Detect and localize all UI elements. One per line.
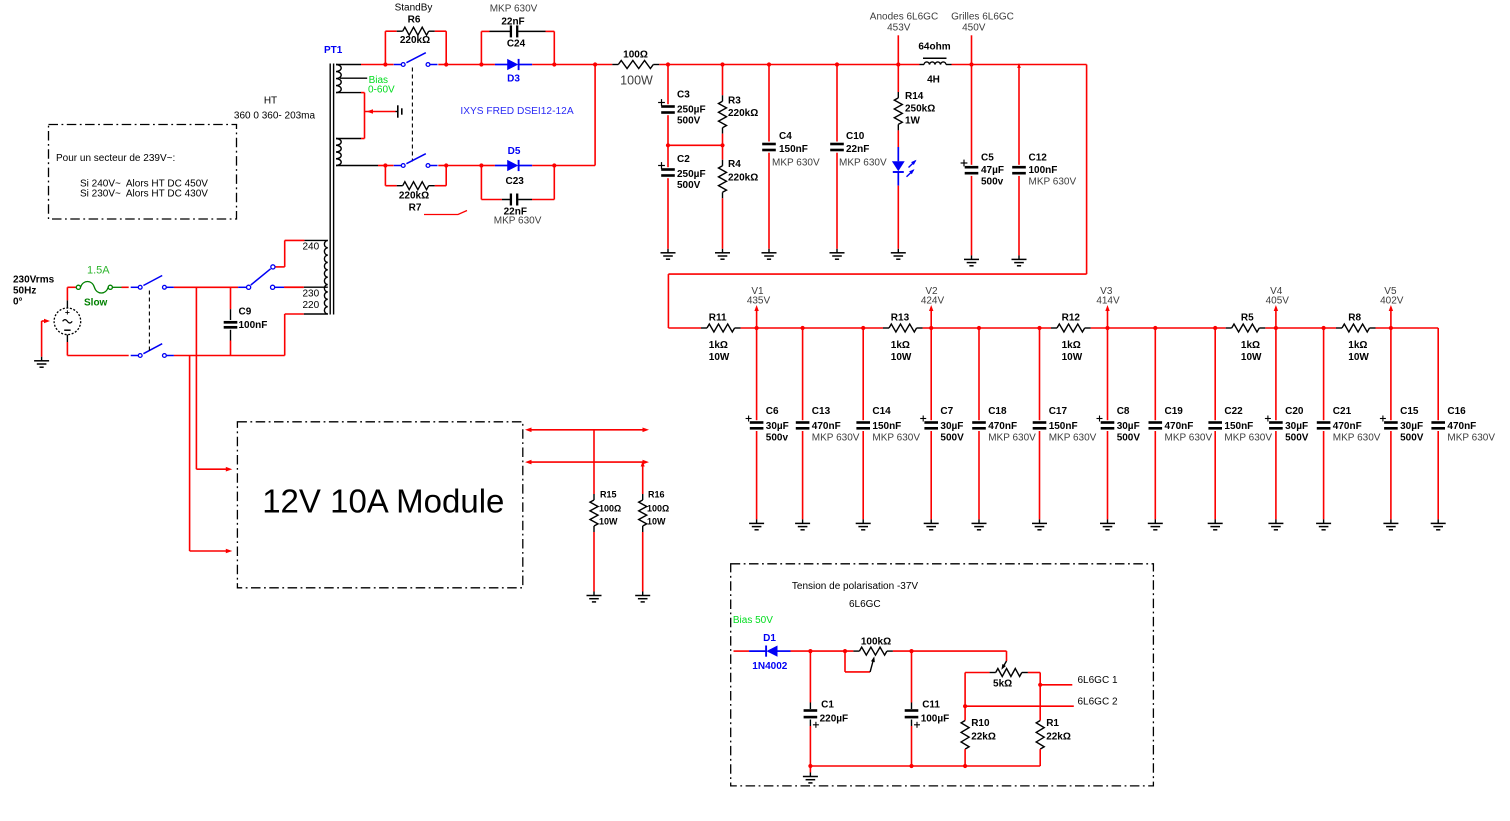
svg-text:150nF: 150nF <box>1224 421 1253 432</box>
svg-text:C4: C4 <box>779 131 792 142</box>
svg-text:C14: C14 <box>872 406 891 417</box>
svg-text:10W: 10W <box>599 517 618 527</box>
svg-text:6L6GC: 6L6GC <box>849 599 881 610</box>
svg-text:10W: 10W <box>891 352 912 363</box>
svg-text:MKP 630V: MKP 630V <box>1049 432 1097 443</box>
svg-text:Si 230V~ Alors HT DC 430V: Si 230V~ Alors HT DC 430V <box>80 189 208 200</box>
svg-text:C11: C11 <box>922 699 940 710</box>
svg-text:10W: 10W <box>709 352 730 363</box>
svg-text:100kΩ: 100kΩ <box>861 637 891 648</box>
svg-text:450V: 450V <box>962 23 986 34</box>
svg-text:1.5A: 1.5A <box>87 265 110 277</box>
svg-text:500V: 500V <box>1117 432 1141 443</box>
svg-text:MKP 630V: MKP 630V <box>1333 432 1381 443</box>
svg-text:C18: C18 <box>988 406 1007 417</box>
svg-text:PT1: PT1 <box>324 45 343 56</box>
svg-text:150nF: 150nF <box>872 421 901 432</box>
svg-text:C1: C1 <box>821 699 834 710</box>
svg-text:MKP 630V: MKP 630V <box>490 3 538 14</box>
svg-text:30µF: 30µF <box>1400 421 1423 432</box>
svg-text:C15: C15 <box>1400 406 1419 417</box>
svg-text:R15: R15 <box>600 490 617 500</box>
svg-text:500V: 500V <box>940 432 964 443</box>
svg-text:402V: 402V <box>1380 295 1404 306</box>
svg-text:10W: 10W <box>1241 352 1262 363</box>
svg-text:470nF: 470nF <box>1333 421 1362 432</box>
svg-text:C13: C13 <box>812 406 831 417</box>
svg-text:C8: C8 <box>1117 406 1130 417</box>
svg-text:R5: R5 <box>1241 312 1254 323</box>
svg-text:0-60V: 0-60V <box>368 85 395 96</box>
svg-text:220kΩ: 220kΩ <box>400 35 430 46</box>
svg-text:220µF: 220µF <box>820 713 849 724</box>
svg-text:1kΩ: 1kΩ <box>1348 340 1367 351</box>
svg-text:230Vrms: 230Vrms <box>13 275 55 286</box>
svg-text:30µF: 30µF <box>940 421 963 432</box>
svg-text:220: 220 <box>303 300 320 311</box>
svg-text:C6: C6 <box>766 406 779 417</box>
svg-text:30µF: 30µF <box>1117 421 1140 432</box>
svg-text:220kΩ: 220kΩ <box>728 108 758 119</box>
svg-text:405V: 405V <box>1266 295 1290 306</box>
svg-text:R11: R11 <box>709 312 727 323</box>
svg-text:500V: 500V <box>677 180 701 191</box>
svg-text:R7: R7 <box>409 203 422 214</box>
svg-text:D1: D1 <box>763 633 776 644</box>
svg-text:C10: C10 <box>846 131 865 142</box>
svg-text:5kΩ: 5kΩ <box>993 678 1012 689</box>
svg-text:MKP 630V: MKP 630V <box>812 432 860 443</box>
svg-text:100W: 100W <box>620 74 653 88</box>
svg-text:453V: 453V <box>887 23 911 34</box>
svg-text:1kΩ: 1kΩ <box>709 340 728 351</box>
svg-text:220kΩ: 220kΩ <box>399 191 429 202</box>
svg-text:470nF: 470nF <box>812 421 841 432</box>
svg-text:100Ω: 100Ω <box>599 504 621 514</box>
svg-text:360 0 360- 203ma: 360 0 360- 203ma <box>234 111 316 122</box>
svg-text:500v: 500v <box>981 177 1004 188</box>
svg-text:100Ω: 100Ω <box>623 50 648 61</box>
svg-text:22kΩ: 22kΩ <box>1046 732 1071 743</box>
svg-text:Slow: Slow <box>84 298 108 309</box>
svg-text:C5: C5 <box>981 152 994 163</box>
svg-text:+: + <box>65 307 70 317</box>
svg-text:C20: C20 <box>1285 406 1304 417</box>
svg-text:64ohm: 64ohm <box>918 42 950 53</box>
svg-text:R3: R3 <box>728 95 741 106</box>
svg-text:C9: C9 <box>239 307 252 318</box>
svg-text:150nF: 150nF <box>1049 421 1078 432</box>
svg-text:470nF: 470nF <box>1165 421 1194 432</box>
svg-text:240: 240 <box>303 241 320 252</box>
svg-text:12V 10A Module: 12V 10A Module <box>262 483 504 520</box>
svg-text:C21: C21 <box>1333 406 1352 417</box>
svg-text:MKP 630V: MKP 630V <box>1029 177 1077 188</box>
svg-text:MKP 630V: MKP 630V <box>839 157 887 168</box>
svg-text:C2: C2 <box>677 154 690 165</box>
svg-text:250µF: 250µF <box>677 105 706 116</box>
svg-text:6L6GC 2: 6L6GC 2 <box>1078 696 1118 707</box>
svg-text:250kΩ: 250kΩ <box>905 104 935 115</box>
svg-text:0°: 0° <box>13 297 23 308</box>
svg-text:MKP 630V: MKP 630V <box>1447 432 1495 443</box>
svg-text:6L6GC 1: 6L6GC 1 <box>1078 675 1118 686</box>
svg-text:1kΩ: 1kΩ <box>1062 340 1081 351</box>
svg-text:Tension de polarisation -37V: Tension de polarisation -37V <box>792 581 919 592</box>
svg-text:R6: R6 <box>408 15 421 26</box>
svg-text:Anodes 6L6GC: Anodes 6L6GC <box>870 12 938 23</box>
svg-text:R1: R1 <box>1046 718 1059 729</box>
svg-text:MKP 630V: MKP 630V <box>988 432 1036 443</box>
svg-text:Bias 50V: Bias 50V <box>733 615 773 626</box>
svg-text:470nF: 470nF <box>1447 421 1476 432</box>
svg-text:R16: R16 <box>648 490 665 500</box>
svg-text:30µF: 30µF <box>1285 421 1308 432</box>
svg-text:424V: 424V <box>921 295 945 306</box>
svg-text:C16: C16 <box>1447 406 1466 417</box>
svg-text:1W: 1W <box>905 115 921 126</box>
svg-text:C19: C19 <box>1165 406 1184 417</box>
svg-text:22nF: 22nF <box>846 144 869 155</box>
svg-text:C17: C17 <box>1049 406 1068 417</box>
svg-text:10W: 10W <box>1348 352 1369 363</box>
svg-text:10W: 10W <box>1062 352 1083 363</box>
svg-text:R12: R12 <box>1062 312 1081 323</box>
svg-text:435V: 435V <box>747 295 771 306</box>
svg-text:MKP 630V: MKP 630V <box>1224 432 1272 443</box>
svg-text:D3: D3 <box>507 73 520 84</box>
svg-text:100µF: 100µF <box>921 713 950 724</box>
svg-text:MKP 630V: MKP 630V <box>494 216 542 227</box>
svg-text:22nF: 22nF <box>501 16 524 27</box>
svg-text:1N4002: 1N4002 <box>752 661 787 672</box>
svg-text:D5: D5 <box>508 146 521 157</box>
svg-text:1kΩ: 1kΩ <box>891 340 910 351</box>
svg-text:Grilles 6L6GC: Grilles 6L6GC <box>951 12 1014 23</box>
svg-text:47µF: 47µF <box>981 165 1004 176</box>
svg-text:C22: C22 <box>1224 406 1243 417</box>
svg-text:R13: R13 <box>891 312 910 323</box>
svg-text:R10: R10 <box>971 718 990 729</box>
svg-text:C3: C3 <box>677 90 690 101</box>
svg-text:R8: R8 <box>1348 312 1361 323</box>
svg-text:414V: 414V <box>1096 295 1120 306</box>
svg-text:C23: C23 <box>506 176 525 187</box>
svg-text:100nF: 100nF <box>1029 165 1058 176</box>
svg-text:500V: 500V <box>1285 432 1309 443</box>
svg-text:IXYS FRED DSEI12-12A: IXYS FRED DSEI12-12A <box>460 106 573 117</box>
svg-text:HT: HT <box>264 96 277 107</box>
svg-text:C7: C7 <box>940 406 953 417</box>
svg-text:30µF: 30µF <box>766 421 789 432</box>
svg-text:100Ω: 100Ω <box>647 504 669 514</box>
svg-text:StandBy: StandBy <box>395 3 433 14</box>
svg-text:100nF: 100nF <box>239 320 268 331</box>
svg-text:4H: 4H <box>927 74 940 85</box>
svg-text:C24: C24 <box>507 39 526 50</box>
svg-text:MKP 630V: MKP 630V <box>772 157 820 168</box>
svg-text:150nF: 150nF <box>779 144 808 155</box>
svg-text:Pour un secteur de 239V~:: Pour un secteur de 239V~: <box>56 153 175 164</box>
svg-text:500V: 500V <box>677 116 701 127</box>
svg-text:C12: C12 <box>1029 152 1048 163</box>
svg-text:250µF: 250µF <box>677 169 706 180</box>
svg-text:470nF: 470nF <box>988 421 1017 432</box>
svg-text:230: 230 <box>303 289 320 300</box>
svg-text:1kΩ: 1kΩ <box>1241 340 1260 351</box>
svg-text:R14: R14 <box>905 91 924 102</box>
svg-text:R4: R4 <box>728 159 741 170</box>
svg-text:500V: 500V <box>1400 432 1424 443</box>
svg-text:50Hz: 50Hz <box>13 286 36 297</box>
svg-text:22kΩ: 22kΩ <box>971 732 996 743</box>
svg-text:500v: 500v <box>766 432 789 443</box>
svg-text:10W: 10W <box>647 517 666 527</box>
svg-text:MKP 630V: MKP 630V <box>872 432 920 443</box>
svg-text:MKP 630V: MKP 630V <box>1165 432 1213 443</box>
svg-text:220kΩ: 220kΩ <box>728 172 758 183</box>
